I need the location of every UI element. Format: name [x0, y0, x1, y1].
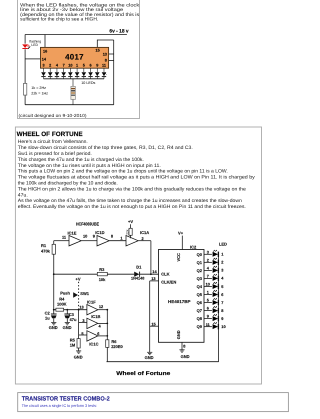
svg-text:9: 9	[207, 315, 209, 319]
svg-text:10: 10	[68, 63, 72, 67]
svg-text:7: 7	[63, 63, 65, 67]
svg-text:7: 7	[221, 300, 223, 305]
svg-text:IC1C: IC1C	[89, 342, 98, 347]
svg-text:3: 3	[207, 250, 209, 254]
svg-text:This puts a LOW on pin 2 and t: This puts a LOW on pin 2 and the voltage…	[18, 169, 228, 175]
svg-text:CLK: CLK	[161, 272, 169, 277]
svg-text:100K: 100K	[57, 301, 67, 306]
svg-text:470k: 470k	[41, 248, 51, 253]
svg-text:As the voltage on the 47u fall: As the voltage on the 47u falls, the tim…	[18, 198, 242, 204]
svg-text:1M: 1M	[70, 343, 76, 348]
svg-text:16: 16	[43, 49, 47, 53]
svg-text:IC1E: IC1E	[68, 230, 77, 235]
svg-text:10: 10	[206, 283, 210, 287]
svg-text:Q7: Q7	[197, 308, 203, 313]
svg-text:1: 1	[207, 291, 209, 295]
svg-text:1N4148: 1N4148	[131, 277, 144, 281]
svg-text:Q9: Q9	[197, 324, 203, 329]
svg-text:The circuit uses a single IC t: The circuit uses a single IC to perform …	[22, 403, 97, 408]
svg-text:47u.: 47u.	[18, 192, 28, 198]
svg-text:Push: Push	[60, 291, 70, 296]
svg-text:Q5: Q5	[197, 292, 203, 297]
svg-text:1k = 2Hz: 1k = 2Hz	[31, 86, 46, 90]
svg-text:D1: D1	[136, 265, 142, 270]
svg-text:47u: 47u	[70, 317, 77, 322]
svg-text:Q4: Q4	[197, 284, 203, 289]
svg-text:IC1D: IC1D	[95, 230, 104, 235]
svg-text:Sw1 is pressed for a brief per: Sw1 is pressed for a brief period.	[18, 151, 92, 157]
svg-text:4017: 4017	[65, 52, 84, 61]
svg-text:sufficient for the chip to see: sufficient for the chip to see a HIGH.	[20, 17, 98, 23]
svg-text:1u: 1u	[45, 316, 50, 321]
svg-text:220E0: 220E0	[111, 344, 123, 349]
svg-text:+V: +V	[75, 277, 80, 282]
svg-text:LED: LED	[31, 43, 38, 47]
svg-text:5: 5	[83, 63, 85, 67]
svg-text:Q8: Q8	[197, 316, 203, 321]
svg-text:This charges the 47u and the 1: This charges the 47u and the 1u is charg…	[18, 157, 144, 163]
svg-text:(circuit designed on 9-10-2010: (circuit designed on 9-10-2010)	[19, 113, 88, 118]
svg-text:22k = 1Hz: 22k = 1Hz	[31, 92, 48, 96]
svg-text:VCC: VCC	[176, 253, 181, 262]
svg-text:3: 3	[42, 63, 44, 67]
svg-text:GND: GND	[176, 330, 181, 339]
svg-text:CLK/EN: CLK/EN	[161, 279, 176, 284]
svg-text:2: 2	[207, 258, 209, 262]
svg-text:10: 10	[221, 324, 225, 329]
svg-text:IC1F: IC1F	[87, 299, 96, 304]
svg-text:IC2: IC2	[190, 245, 197, 250]
svg-text:6v - 18 v: 6v - 18 v	[109, 28, 128, 34]
svg-text:IC1B: IC1B	[91, 314, 100, 319]
svg-text:LED: LED	[219, 242, 227, 247]
svg-text:7: 7	[207, 275, 209, 279]
svg-text:V+: V+	[178, 231, 184, 236]
svg-text:HCF4069UBE: HCF4069UBE	[76, 221, 99, 226]
svg-text:10: 10	[83, 233, 87, 238]
svg-text:TRANSISTOR TESTER COMBO-2: TRANSISTOR TESTER COMBO-2	[22, 396, 111, 403]
svg-text:13: 13	[103, 53, 107, 57]
svg-text:Wheel of Fortune: Wheel of Fortune	[116, 371, 170, 377]
svg-text:+V: +V	[128, 219, 133, 224]
svg-text:GND: GND	[74, 354, 83, 359]
svg-text:6: 6	[207, 307, 209, 311]
svg-text:GND: GND	[145, 355, 154, 360]
svg-text:1: 1	[76, 63, 78, 67]
svg-text:the 100k and discharged by the: the 100k and discharged by the 10 and di…	[18, 181, 118, 187]
svg-text:The voltage on the 1u rises un: The voltage on the 1u rises until it put…	[18, 163, 161, 169]
svg-text:15: 15	[96, 48, 100, 52]
svg-text:10k: 10k	[99, 277, 106, 282]
svg-text:WHEEL OF FORTUNE: WHEEL OF FORTUNE	[17, 131, 83, 138]
svg-text:6: 6	[89, 63, 91, 67]
svg-text:Q6: Q6	[197, 300, 203, 305]
svg-text:The HIGH on pin 2 allows the 1: The HIGH on pin 2 allows the 1u to charg…	[18, 186, 246, 192]
svg-text:2: 2	[49, 63, 51, 67]
svg-text:GND: GND	[181, 354, 190, 359]
svg-text:11: 11	[102, 63, 106, 67]
svg-text:GND: GND	[49, 325, 58, 330]
svg-text:Q0: Q0	[197, 252, 203, 257]
svg-text:11: 11	[206, 323, 210, 327]
svg-text:effect. Eventually the voltage: effect. Eventually the voltage on the 1u…	[18, 204, 246, 210]
svg-text:Here's a circuit from Velleman: Here's a circuit from Vellemann.	[18, 139, 88, 145]
svg-text:The voltage fluctuates at abou: The voltage fluctuates at about half rai…	[18, 175, 256, 181]
svg-text:Q1: Q1	[197, 260, 203, 265]
svg-text:5: 5	[207, 299, 209, 303]
svg-text:Q2: Q2	[197, 268, 203, 273]
svg-text:8: 8	[105, 59, 107, 63]
svg-text:22k: 22k	[125, 229, 129, 235]
svg-text:9: 9	[96, 63, 98, 67]
svg-text:The slow-down circuit consists: The slow-down circuit consists of the to…	[18, 145, 193, 151]
svg-text:10 LEDs: 10 LEDs	[81, 81, 95, 85]
svg-text:R1: R1	[41, 243, 47, 248]
svg-text:HE4017BP: HE4017BP	[168, 299, 191, 304]
svg-text:SW1: SW1	[80, 291, 89, 296]
svg-text:R3: R3	[99, 267, 105, 272]
svg-text:IC1A: IC1A	[140, 230, 149, 235]
svg-text:Q3: Q3	[197, 276, 203, 281]
svg-text:GND: GND	[63, 325, 72, 330]
